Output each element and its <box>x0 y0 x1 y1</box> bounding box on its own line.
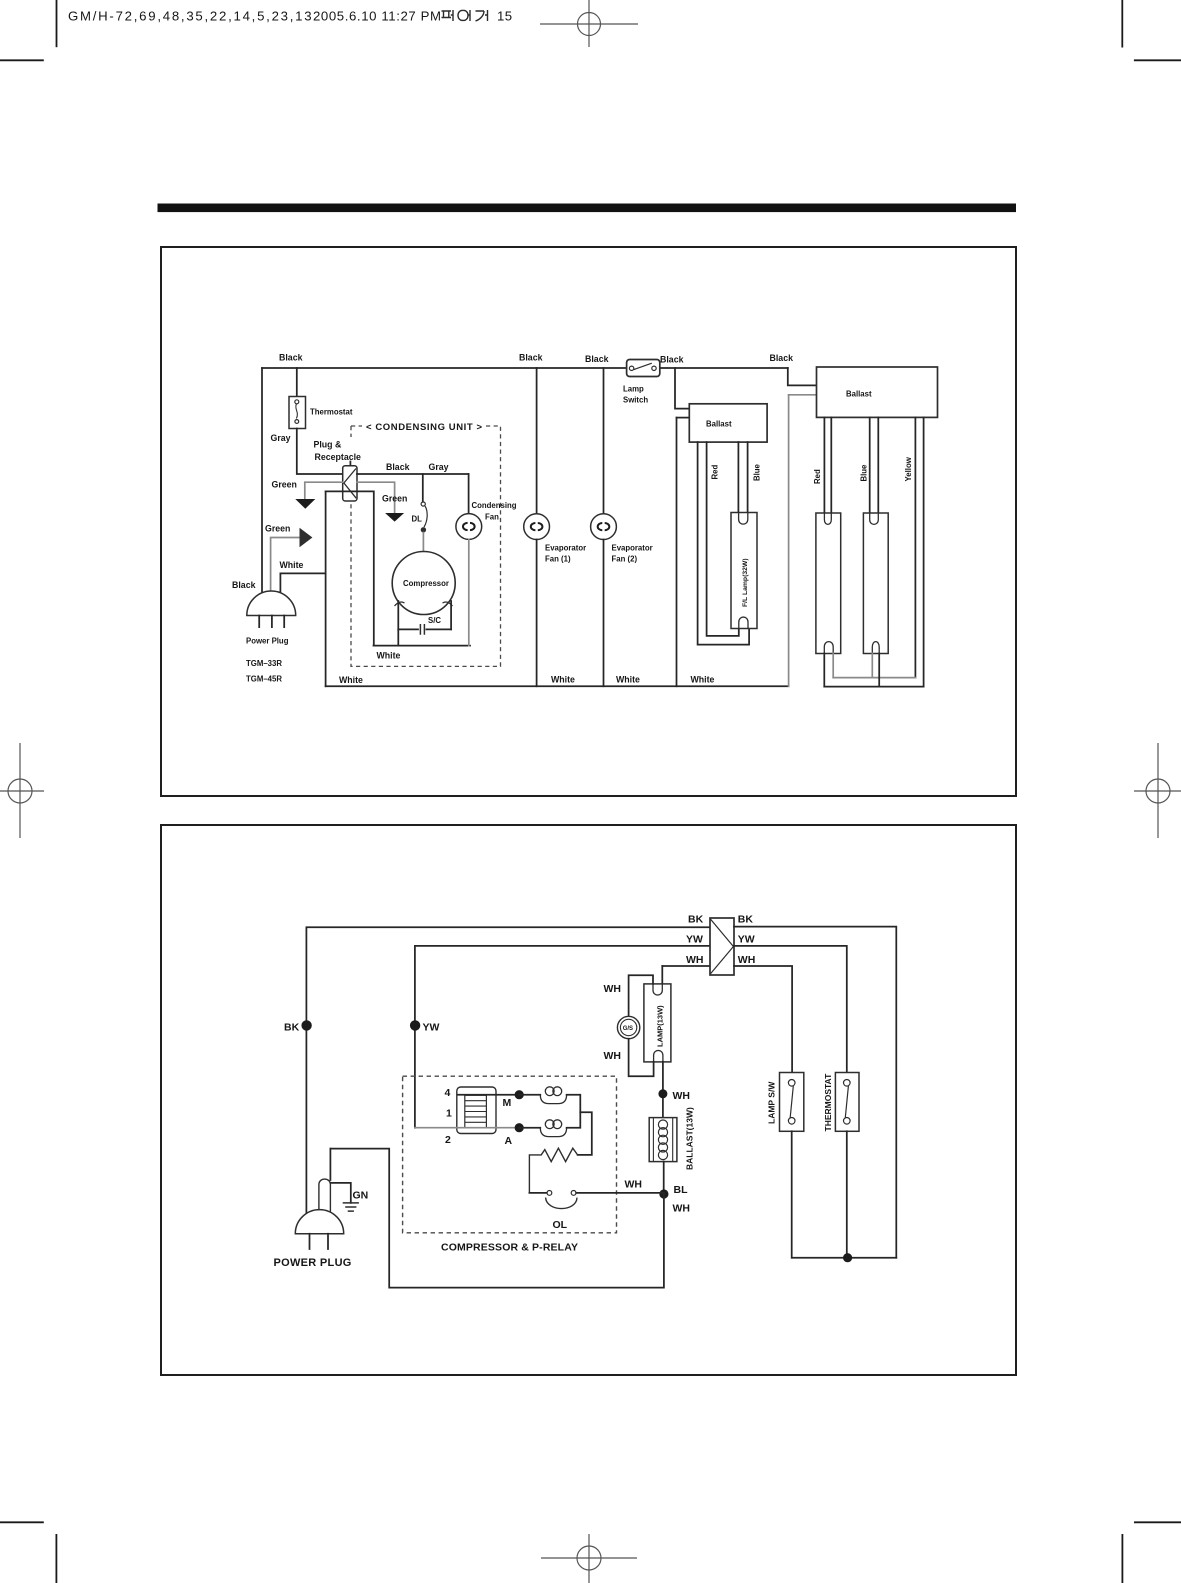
dashed condensing unit boundary <box>351 425 362 427</box>
svg-text:WH: WH <box>604 983 622 995</box>
wire: white riser into ballast2 <box>789 394 817 396</box>
svg-text:Gray: Gray <box>271 433 291 443</box>
svg-text:S/C: S/C <box>428 616 441 625</box>
svg-text:WH: WH <box>604 1050 622 1062</box>
svg-text:2: 2 <box>445 1134 451 1146</box>
svg-text:Lamp: Lamp <box>623 385 644 394</box>
diagram 2 frame box <box>161 825 1016 1375</box>
power plug PL1 <box>232 524 312 684</box>
svg-text:LAMP(13W): LAMP(13W) <box>656 1005 665 1047</box>
svg-text:YW: YW <box>423 1022 440 1034</box>
svg-text:Receptacle: Receptacle <box>315 452 362 462</box>
svg-text:THERMOSTAT: THERMOSTAT <box>823 1073 833 1132</box>
lamp LAMP(13W) <box>644 984 671 1062</box>
ballast B2 <box>817 367 938 417</box>
ground GN <box>330 1183 368 1211</box>
trim mark bottom-right <box>1122 1522 1181 1583</box>
fluorescent tube L1 <box>816 513 841 654</box>
power plug PL2 <box>274 1149 352 1270</box>
wire: ballast1 long returns to lamp bottom <box>707 442 739 636</box>
wire: green left with arrow <box>305 482 343 498</box>
wire: ballast to BL node <box>663 1162 665 1194</box>
svg-text:BK: BK <box>284 1022 300 1034</box>
capacitor S/C <box>398 616 451 635</box>
svg-text:Black: Black <box>770 353 794 363</box>
registration mark top <box>540 0 638 47</box>
svg-text:White: White <box>377 651 401 661</box>
wire: bus into ballast2 <box>788 368 817 385</box>
svg-text:White: White <box>280 560 304 570</box>
svg-text:Evaporator: Evaporator <box>545 544 586 553</box>
svg-text:Black: Black <box>386 462 410 472</box>
registration mark right <box>1134 743 1181 838</box>
svg-text:TGM–33R: TGM–33R <box>246 659 282 668</box>
svg-text:Green: Green <box>382 494 407 504</box>
svg-text:White: White <box>551 675 575 685</box>
svg-text:Black: Black <box>279 353 303 363</box>
lamp switch S/W <box>767 1073 804 1258</box>
svg-text:BK: BK <box>738 914 754 926</box>
svg-text:F/L Lamp(32W): F/L Lamp(32W) <box>742 558 749 607</box>
relay compartment dashed box <box>403 1076 617 1233</box>
svg-text:Green: Green <box>272 480 297 490</box>
wire: WH bus right to lamp switch <box>734 966 792 1073</box>
ballast B1 <box>689 404 767 442</box>
svg-text:GM/H-72,69,48,35,22,14,5,23,13: GM/H-72,69,48,35,22,14,5,23,13 <box>68 9 313 24</box>
svg-text:Fan (1): Fan (1) <box>545 555 571 564</box>
wire: ballast2 blue pair <box>869 417 871 513</box>
thermostat TH2 <box>823 1073 859 1258</box>
registration mark bottom <box>541 1534 637 1583</box>
registration mark left <box>0 743 44 838</box>
svg-text:Red: Red <box>711 465 720 480</box>
svg-text:Green: Green <box>265 524 290 534</box>
node YW junction dot <box>410 1020 420 1030</box>
svg-text:Blue: Blue <box>860 464 869 482</box>
svg-text:Thermostat: Thermostat <box>310 408 353 417</box>
wire: relay M row <box>458 1094 519 1096</box>
svg-text:BK: BK <box>688 914 704 926</box>
wire: BK bus right <box>734 927 896 1258</box>
svg-text:Fan (2): Fan (2) <box>612 555 638 564</box>
svg-text:DL: DL <box>412 515 423 524</box>
ballast BALLAST(13W) <box>649 1107 694 1170</box>
fluorescent lamp F/L 32W <box>731 513 757 629</box>
wire: ballast1 to F/L lamp top pin <box>737 442 739 512</box>
wire: drop to ballast1 <box>675 368 689 409</box>
svg-text:Red: Red <box>813 469 822 484</box>
svg-text:GN: GN <box>353 1189 369 1201</box>
fluorescent tube L2 <box>863 513 888 654</box>
header page label <box>442 10 488 21</box>
svg-text:Evaporator: Evaporator <box>612 544 653 553</box>
wire: YW bus left <box>415 946 710 1128</box>
node BL dot <box>659 1189 668 1198</box>
compressor M1 <box>392 552 455 615</box>
svg-text:Ballast: Ballast <box>846 390 872 399</box>
svg-text:15: 15 <box>497 9 512 24</box>
wire: gray from thermostat to receptacle <box>297 429 343 475</box>
glow starter G/S <box>617 1016 639 1038</box>
wire: top black bus <box>262 367 788 369</box>
condensing fan F1 <box>456 474 517 646</box>
wire: ballast1 return to white bus <box>677 417 690 419</box>
wire: BK bus left <box>306 927 710 1213</box>
coil aux winding <box>519 1112 580 1136</box>
wire: lamp to ballast <box>662 1062 664 1118</box>
svg-text:Fan: Fan <box>485 513 499 522</box>
svg-text:WH: WH <box>686 954 704 966</box>
wire: glow starter branch bottom <box>629 1039 654 1077</box>
svg-text:YW: YW <box>686 934 703 946</box>
wire: green right with arrow <box>357 482 395 512</box>
svg-text:Blue: Blue <box>753 463 762 481</box>
wire: compressor leads <box>397 601 399 629</box>
svg-text:WH: WH <box>625 1179 643 1191</box>
svg-text:OL: OL <box>553 1219 568 1231</box>
svg-text:TGM–45R: TGM–45R <box>246 675 282 684</box>
svg-text:White: White <box>691 675 715 685</box>
wire: tube returns dark <box>823 653 825 686</box>
svg-text:Black: Black <box>585 354 609 364</box>
plug and receptacle P1 <box>314 440 362 502</box>
evaporator fan 2 <box>585 354 653 686</box>
svg-text:Black: Black <box>232 580 256 590</box>
trim mark top-right <box>1122 0 1181 60</box>
wire: WH return loop to plug <box>331 1149 664 1288</box>
svg-text:Switch: Switch <box>623 396 648 405</box>
svg-text:G/S: G/S <box>623 1026 633 1032</box>
wire: black/gray feed right of receptacle <box>357 473 469 475</box>
wire: relay A row <box>415 1127 519 1129</box>
node WH dot <box>658 1089 667 1098</box>
svg-text:Gray: Gray <box>429 462 449 472</box>
diagram 1 frame box <box>161 247 1016 796</box>
svg-text:LAMP S/W: LAMP S/W <box>767 1081 777 1124</box>
svg-text:M: M <box>503 1097 512 1109</box>
wire: left black drop to power plug <box>261 368 263 593</box>
lamp switch S1 <box>623 355 684 405</box>
svg-text:Plug &: Plug & <box>314 440 343 450</box>
heavy rule bar <box>158 204 1017 213</box>
svg-text:< CONDENSING UNIT >: < CONDENSING UNIT > <box>366 422 482 433</box>
svg-text:A: A <box>505 1135 513 1147</box>
wire: white bus bottom <box>326 685 789 687</box>
connector CN1 <box>710 918 734 975</box>
wire: WH bus left <box>662 965 710 967</box>
svg-text:Condensing: Condensing <box>472 501 517 510</box>
svg-text:White: White <box>616 675 640 685</box>
svg-text:Power Plug: Power Plug <box>246 637 289 646</box>
overload protector OL <box>529 1191 664 1232</box>
node A dot <box>515 1123 524 1132</box>
relay PTC K1 <box>457 1087 496 1134</box>
wire: ballast2 red pair <box>823 417 825 513</box>
svg-text:WH: WH <box>673 1090 691 1102</box>
svg-text:COMPRESSOR & P-RELAY: COMPRESSOR & P-RELAY <box>441 1241 578 1253</box>
wire: ballast2 yellow pair <box>914 417 916 677</box>
svg-text:Black: Black <box>519 353 543 363</box>
thermostat TH1 <box>289 397 353 429</box>
svg-text:WH: WH <box>673 1203 691 1215</box>
svg-text:1: 1 <box>446 1108 452 1120</box>
svg-text:WH: WH <box>738 954 756 966</box>
trim mark bottom-left <box>0 1522 56 1583</box>
svg-text:BL: BL <box>674 1184 689 1196</box>
evaporator fan 1 <box>519 353 586 687</box>
coil main winding <box>519 1087 592 1155</box>
switch DL <box>412 474 428 560</box>
svg-text:YW: YW <box>738 934 755 946</box>
wire: white to plug and bus <box>325 491 327 686</box>
resistor heater <box>529 1148 577 1193</box>
svg-text:Black: Black <box>660 355 684 365</box>
wire: WH drop to lamp <box>661 966 663 988</box>
svg-text:White: White <box>339 675 363 685</box>
wire: compressor white loop <box>397 629 399 645</box>
svg-text:POWER PLUG: POWER PLUG <box>274 1257 352 1269</box>
svg-text:Yellow: Yellow <box>904 456 913 481</box>
svg-text:BALLAST(13W): BALLAST(13W) <box>685 1107 695 1170</box>
wire: thermostat branch <box>296 368 298 397</box>
node BK junction dot <box>301 1020 311 1030</box>
svg-text:Ballast: Ballast <box>706 420 732 429</box>
ground arrow green left <box>295 499 315 509</box>
node junction dot bottom <box>843 1253 852 1262</box>
wire: bottom tie <box>792 1257 896 1259</box>
svg-text:4: 4 <box>445 1087 451 1099</box>
wire: YW bus right to thermostat <box>734 946 847 1073</box>
ground arrow green right <box>385 513 404 522</box>
node M dot <box>515 1090 524 1099</box>
wire: glow starter branch top <box>629 975 653 1016</box>
svg-text:Compressor: Compressor <box>403 579 449 588</box>
svg-text:2005.6.10 11:27 PM: 2005.6.10 11:27 PM <box>313 9 442 24</box>
wire: tube returns gray <box>832 653 834 677</box>
trim mark top-left <box>0 0 57 60</box>
